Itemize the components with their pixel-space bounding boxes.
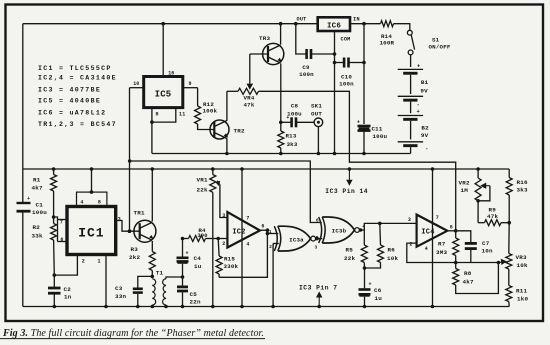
svg-text:IC1 = TLC555CP: IC1 = TLC555CP bbox=[38, 65, 112, 72]
svg-text:4k7: 4k7 bbox=[463, 279, 474, 286]
svg-text:C7: C7 bbox=[482, 240, 490, 247]
svg-text:VR3: VR3 bbox=[516, 254, 527, 261]
svg-text:47k: 47k bbox=[487, 213, 498, 220]
svg-text:33n: 33n bbox=[115, 293, 126, 300]
svg-text:IC3b: IC3b bbox=[332, 228, 347, 235]
svg-text:+: + bbox=[417, 63, 421, 70]
svg-text:1: 1 bbox=[269, 229, 272, 235]
wire TR3 base bbox=[250, 53, 268, 55]
wire +12V rail bottom section (y=169) bbox=[23, 168, 509, 170]
svg-text:10k: 10k bbox=[517, 262, 528, 269]
svg-text:9V: 9V bbox=[420, 87, 428, 94]
svg-text:1k0: 1k0 bbox=[517, 295, 528, 302]
IC5 4040BE box bbox=[144, 77, 183, 108]
svg-text:R13: R13 bbox=[286, 132, 297, 139]
wire TR2 emitter to 0V rail bbox=[226, 138, 228, 153]
potentiometer VR3 10k bbox=[508, 223, 510, 254]
resistor R12 100k bbox=[197, 88, 199, 106]
wire IC2 supply pins 7/4 vertical bbox=[241, 169, 243, 307]
svg-text:TR1,2,3 = BC547: TR1,2,3 = BC547 bbox=[38, 121, 117, 128]
svg-text:11: 11 bbox=[179, 112, 185, 118]
svg-text:IC6 = uA78L12: IC6 = uA78L12 bbox=[38, 109, 106, 116]
svg-text:SK1: SK1 bbox=[311, 103, 322, 110]
svg-text:IC5: IC5 bbox=[155, 90, 172, 100]
svg-text:6: 6 bbox=[316, 218, 319, 224]
battery B2 9V bbox=[410, 102, 412, 114]
wire bottom rail 0V (y=306.5) bbox=[23, 306, 509, 308]
svg-text:100u: 100u bbox=[32, 209, 47, 216]
capacitor C8 100u bbox=[281, 121, 291, 123]
transistor TR3 bbox=[263, 43, 284, 64]
switch S1 ON/OFF bbox=[407, 30, 412, 35]
svg-text:IC3 Pin 7: IC3 Pin 7 bbox=[299, 284, 338, 291]
svg-text:Fig 3. The full circuit diagra: Fig 3. The full circuit diagram for the … bbox=[2, 328, 264, 339]
svg-text:+: + bbox=[369, 282, 372, 288]
battery B1 9V bbox=[410, 55, 412, 67]
IC6 regulator box bbox=[318, 17, 350, 31]
svg-text:R6: R6 bbox=[388, 246, 396, 253]
wire IC6 IN junction down bbox=[363, 24, 365, 124]
capacitor C4 1u electrolytic bbox=[182, 239, 184, 257]
svg-text:2: 2 bbox=[222, 241, 225, 247]
svg-text:6: 6 bbox=[60, 237, 63, 243]
node TR1 base junction bbox=[128, 229, 132, 233]
capacitor C3 33n bbox=[138, 276, 153, 287]
capacitor C5 22n bbox=[182, 277, 184, 286]
svg-text:R11: R11 bbox=[516, 287, 527, 294]
svg-text:5: 5 bbox=[316, 235, 319, 241]
capacitor C7 10n bbox=[456, 231, 471, 242]
wire IC4 output node bbox=[447, 230, 455, 232]
svg-text:TR3: TR3 bbox=[259, 35, 270, 42]
svg-text:2: 2 bbox=[269, 244, 272, 250]
svg-text:9: 9 bbox=[189, 81, 192, 87]
wire R1/R2 junction to IC1 pins 7 and 6 bbox=[54, 217, 58, 242]
inductor T1 secondary coil bbox=[163, 279, 166, 305]
svg-text:1u: 1u bbox=[375, 295, 383, 302]
caption rule bbox=[0, 338, 265, 340]
svg-text:100n: 100n bbox=[299, 71, 314, 78]
wire TR3 emitter down to C8 node bbox=[280, 64, 282, 123]
resistor R16 3k3 bbox=[508, 169, 510, 178]
svg-text:B2: B2 bbox=[421, 124, 429, 131]
svg-text:22k: 22k bbox=[344, 255, 355, 262]
svg-text:R7: R7 bbox=[438, 240, 446, 247]
svg-text:4: 4 bbox=[425, 246, 428, 252]
svg-text:7: 7 bbox=[436, 215, 439, 221]
capacitor C1 100u electrolytic on left boundary bbox=[17, 202, 31, 204]
svg-text:3: 3 bbox=[315, 245, 318, 251]
svg-text:+: + bbox=[417, 108, 421, 115]
wire IC5 pin10 clock input bbox=[130, 87, 144, 89]
wire IC3a input2 to 0V rail bbox=[273, 243, 279, 245]
svg-text:C5: C5 bbox=[190, 291, 198, 298]
svg-text:ON/OFF: ON/OFF bbox=[429, 43, 451, 50]
transistor TR2 bbox=[210, 120, 229, 139]
svg-text:IC3 = 4077BE: IC3 = 4077BE bbox=[38, 86, 101, 93]
wire feedback R15 to IC2 output bbox=[219, 230, 267, 277]
svg-text:3: 3 bbox=[408, 217, 411, 223]
wire IC1 pin2 to C2 node bbox=[54, 255, 77, 276]
svg-text:IC3 Pin 14: IC3 Pin 14 bbox=[325, 188, 368, 195]
svg-text:+: + bbox=[186, 251, 189, 257]
wire TR2 collector to VR4 left bbox=[226, 91, 228, 121]
svg-text:10n: 10n bbox=[482, 247, 493, 254]
svg-text:-: - bbox=[425, 145, 429, 152]
svg-text:IC3a: IC3a bbox=[289, 236, 304, 243]
wire IC3b output node bbox=[360, 229, 365, 231]
label IC3 Pin 7 with arrow bbox=[317, 305, 321, 309]
wire IC2 output bbox=[260, 229, 268, 231]
IC1 pins 4+8 supply sub-box bbox=[77, 192, 107, 206]
svg-text:3k3: 3k3 bbox=[287, 141, 298, 148]
resistor R4 390 bbox=[181, 237, 185, 241]
transistor TR1 bbox=[134, 220, 156, 242]
svg-text:R8: R8 bbox=[464, 270, 472, 277]
svg-text:2k2: 2k2 bbox=[129, 254, 140, 261]
VR4 wiper arrow from TR3 base bbox=[249, 54, 251, 83]
potentiometer VR2 1M bbox=[476, 167, 480, 171]
svg-text:R2: R2 bbox=[33, 224, 41, 231]
capacitor C10 100n bbox=[335, 62, 344, 64]
svg-text:10: 10 bbox=[133, 81, 139, 87]
wire R14 to S1 bbox=[394, 24, 410, 31]
capacitor C6 1u electrolytic bbox=[364, 268, 366, 288]
svg-text:7: 7 bbox=[246, 215, 249, 221]
wire IC4 supply pins 7/4 vertical bbox=[432, 169, 434, 307]
resistor R3 2k2 in TR1 emitter bbox=[151, 241, 153, 252]
svg-text:22k: 22k bbox=[197, 187, 208, 194]
wire top rail IC6 IN to R14 bbox=[350, 23, 381, 25]
op-amp IC4 CA3140 bbox=[417, 215, 448, 247]
wire IC2 pin2 input bbox=[218, 238, 227, 240]
svg-text:T1: T1 bbox=[156, 269, 164, 276]
svg-text:IC1: IC1 bbox=[78, 226, 104, 241]
svg-text:47k: 47k bbox=[243, 102, 254, 109]
svg-text:COM: COM bbox=[341, 37, 351, 43]
svg-text:C10: C10 bbox=[341, 74, 352, 81]
wire TR2/VR4 output line to IC4 output node bbox=[259, 91, 456, 231]
svg-text:C11: C11 bbox=[372, 126, 383, 133]
svg-text:C9: C9 bbox=[302, 64, 310, 71]
svg-text:C1: C1 bbox=[36, 201, 44, 208]
capacitor C2 1n bbox=[53, 275, 55, 287]
resistor R14 100R bbox=[381, 21, 394, 27]
svg-text:1u: 1u bbox=[194, 263, 202, 270]
wire left boundary +12V (x=22.8, with C1 gap) bbox=[22, 24, 24, 203]
wire IC5 pin9 output bbox=[183, 87, 198, 89]
inductor T1 primary coil bbox=[152, 279, 155, 305]
svg-text:390: 390 bbox=[197, 233, 207, 239]
gate IC3b XNOR bbox=[319, 217, 322, 243]
svg-text:OUT: OUT bbox=[297, 16, 307, 22]
svg-text:100u: 100u bbox=[373, 133, 388, 140]
VR3 wiper arrow bbox=[498, 260, 505, 265]
svg-text:VR1: VR1 bbox=[197, 177, 208, 184]
svg-text:C6: C6 bbox=[374, 287, 382, 294]
svg-text:4: 4 bbox=[246, 242, 249, 248]
svg-text:8: 8 bbox=[156, 112, 159, 118]
resistor R1 4k7 bbox=[52, 167, 56, 171]
svg-text:-: - bbox=[417, 101, 421, 108]
svg-text:+: + bbox=[357, 120, 360, 126]
svg-text:6: 6 bbox=[450, 224, 453, 230]
VR1 wiper to IC2 pin3 bbox=[216, 181, 220, 185]
capacitor C9 100n bbox=[296, 24, 306, 54]
svg-text:330k: 330k bbox=[224, 263, 239, 270]
resistor R2 33k bbox=[52, 215, 56, 219]
svg-text:IC2,4 = CA3140E: IC2,4 = CA3140E bbox=[38, 74, 117, 81]
svg-text:B1: B1 bbox=[421, 79, 429, 86]
svg-text:R5: R5 bbox=[346, 246, 354, 253]
wire IC4 pin2 feedback loop bbox=[407, 243, 499, 262]
wire 555 output reference line (y=161) to IC3b input bbox=[130, 161, 322, 223]
node feedback to VR3 wiper junction bbox=[497, 261, 501, 265]
socket SK1 OUT bbox=[314, 118, 323, 127]
svg-text:4: 4 bbox=[80, 200, 83, 206]
svg-text:1n: 1n bbox=[64, 294, 72, 301]
gate IC3a XNOR bbox=[274, 226, 277, 251]
node junction reference line at clock vertical bbox=[128, 159, 132, 163]
wire top rail +V (y=23.7) bbox=[23, 23, 318, 25]
potentiometer VR1 22k bbox=[211, 167, 215, 171]
resistor R6 10k bbox=[378, 222, 382, 226]
capacitor C11 100u electrolytic bbox=[358, 125, 371, 128]
wire IC2 out to IC3a input1 bbox=[267, 233, 278, 235]
svg-text:+: + bbox=[286, 115, 289, 121]
svg-text:IN: IN bbox=[353, 16, 360, 22]
svg-text:22n: 22n bbox=[190, 299, 201, 306]
resistor R5 22k bbox=[363, 230, 365, 245]
wire IC6 COM to 0V rail bbox=[334, 31, 336, 154]
resistor R15 330k feedback bbox=[217, 239, 220, 257]
svg-text:2: 2 bbox=[82, 258, 85, 264]
svg-text:OUT: OUT bbox=[311, 110, 322, 117]
svg-text:1M: 1M bbox=[461, 187, 469, 194]
svg-text:1: 1 bbox=[97, 258, 100, 264]
svg-text:C8: C8 bbox=[291, 103, 299, 110]
svg-text:R3: R3 bbox=[131, 246, 139, 253]
svg-text:C3: C3 bbox=[115, 285, 123, 292]
op-amp IC2 CA3140 bbox=[227, 212, 260, 248]
svg-text:16: 16 bbox=[168, 71, 174, 77]
svg-text:100n: 100n bbox=[339, 81, 354, 88]
svg-text:3k3: 3k3 bbox=[517, 187, 528, 194]
svg-text:IC2: IC2 bbox=[232, 228, 245, 236]
wire 0V rail top section (y=153.5) bbox=[152, 153, 411, 155]
svg-text:R16: R16 bbox=[517, 179, 528, 186]
svg-text:VR2: VR2 bbox=[459, 179, 470, 186]
resistor R7 3M3 bbox=[455, 231, 457, 238]
svg-text:100R: 100R bbox=[380, 40, 395, 47]
IC1 TLC555 box bbox=[67, 207, 116, 255]
potentiometer VR4 47k bbox=[227, 90, 238, 92]
wire IC1 pin1 to 0V rail bbox=[105, 255, 107, 307]
svg-text:C2: C2 bbox=[64, 286, 72, 293]
svg-text:33k: 33k bbox=[32, 232, 43, 239]
svg-text:IC6: IC6 bbox=[327, 22, 341, 30]
svg-text:+: + bbox=[27, 196, 30, 202]
svg-text:7: 7 bbox=[60, 219, 63, 225]
resistor R9 47k bbox=[478, 222, 484, 224]
resistor R8 4k7 bbox=[454, 261, 458, 265]
svg-text:R15: R15 bbox=[224, 256, 235, 263]
svg-text:3: 3 bbox=[118, 217, 121, 223]
wire TR1 collector to +12 rail bbox=[151, 169, 153, 221]
wire IC3b output up to IC4 pin3 line bbox=[364, 223, 416, 230]
wire IC5 pin16 to top rail bbox=[162, 24, 164, 77]
svg-text:6: 6 bbox=[261, 224, 264, 230]
wire IC1 pin3 to TR1 base bbox=[116, 221, 141, 232]
svg-text:IC5 = 4040BE: IC5 = 4040BE bbox=[38, 98, 101, 105]
svg-text:2: 2 bbox=[409, 242, 412, 248]
svg-text:C4: C4 bbox=[194, 255, 202, 262]
svg-text:9V: 9V bbox=[421, 132, 429, 139]
label IC3 Pin 14 with arrow bbox=[348, 167, 352, 171]
resistor R13 3k3 bbox=[280, 122, 282, 131]
wire TR3 collector to top rail bbox=[280, 24, 282, 45]
svg-text:10k: 10k bbox=[387, 255, 398, 262]
svg-text:100k: 100k bbox=[203, 107, 218, 114]
svg-text:3: 3 bbox=[222, 213, 225, 219]
svg-text:8: 8 bbox=[98, 200, 101, 206]
svg-text:R1: R1 bbox=[33, 176, 41, 183]
VR2 wiper tied to lower end bbox=[481, 183, 490, 188]
wire IC5 pins 8+11 ground loop bbox=[151, 108, 153, 123]
svg-text:3M3: 3M3 bbox=[436, 249, 447, 256]
node OUT junction bbox=[294, 22, 298, 26]
svg-text:4k7: 4k7 bbox=[32, 185, 43, 192]
wire IC3a output to IC3b input bbox=[316, 238, 323, 240]
svg-text:TR2: TR2 bbox=[234, 127, 245, 134]
wire IC5 clock vertical down to TR1 base bbox=[129, 88, 131, 232]
resistor R11 1k0 bbox=[506, 286, 512, 302]
svg-text:TR1: TR1 bbox=[134, 210, 145, 217]
